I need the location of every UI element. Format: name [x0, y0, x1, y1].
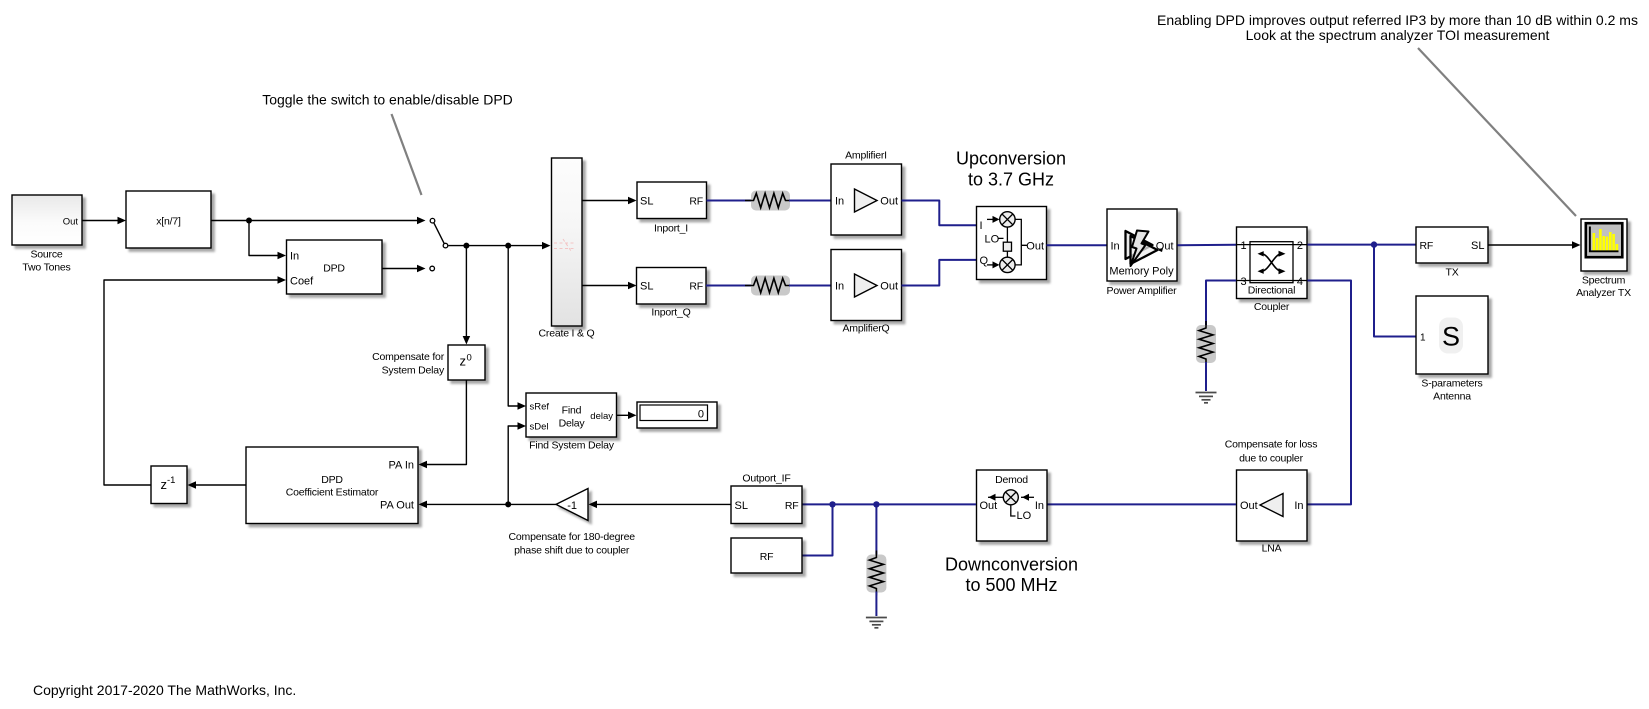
- wire coupler port4 to LNA In: [1308, 281, 1352, 505]
- svg-text:AmplifierQ: AmplifierQ: [842, 323, 889, 335]
- label Delay: [559, 418, 586, 430]
- arrowhead into sRef: [518, 402, 527, 410]
- svg-text:TX: TX: [1445, 267, 1458, 279]
- block Outport_IF: [731, 486, 802, 524]
- block DPD Coefficient Estimator: [246, 447, 418, 524]
- block Demod: [977, 470, 1048, 541]
- port label RF (Inport_I): [689, 196, 703, 208]
- svg-text:Downconversion: Downconversion: [945, 555, 1078, 575]
- svg-text:SL: SL: [640, 281, 653, 293]
- switch pivot terminal: [443, 243, 448, 248]
- port label PA Out: [380, 500, 414, 512]
- annotation: Toggle the switch to enable/disable DPD: [262, 92, 513, 108]
- port label PA In: [389, 459, 414, 471]
- port label In (LNA): [1294, 500, 1303, 512]
- svg-text:Analyzer TX: Analyzer TX: [1576, 287, 1631, 299]
- label Create I &amp; Q: [539, 328, 595, 340]
- wire delay out to Display: [617, 414, 633, 416]
- svg-text:Two Tones: Two Tones: [22, 262, 70, 274]
- svg-text:Demod: Demod: [995, 474, 1028, 486]
- svg-text:In: In: [835, 281, 844, 293]
- label Find: [562, 405, 582, 417]
- port label In (DPD): [290, 250, 299, 262]
- svg-text:4: 4: [1297, 276, 1303, 288]
- arrowhead into PA In: [419, 461, 428, 469]
- label Power Amplifier: [1107, 285, 1178, 297]
- arrowhead into DPD Coef: [278, 276, 287, 284]
- block z0 compensate delay: [448, 345, 485, 380]
- wire Demod Out to Outport_IF RF: [803, 503, 977, 505]
- arrowhead into Spectrum Analyzer: [1572, 241, 1581, 249]
- wire Outport_IF SL to gain -1: [593, 503, 732, 505]
- port pin 1 (S-parameters): [1420, 332, 1426, 343]
- svg-text:Out: Out: [63, 216, 79, 227]
- arrowhead upper mixer: [993, 216, 1000, 223]
- wire DPD out to switch lower terminal: [382, 268, 421, 270]
- label Demod (inside): [995, 474, 1028, 486]
- port label In (PA): [1111, 240, 1120, 252]
- svg-text:Out: Out: [880, 281, 898, 293]
- svg-text:Find System Delay: Find System Delay: [529, 440, 615, 452]
- svg-text:Create I & Q: Create I & Q: [539, 328, 595, 340]
- svg-text:-1: -1: [167, 475, 175, 486]
- svg-text:3: 3: [1241, 276, 1247, 288]
- coupler pin 2: [1297, 240, 1303, 252]
- wire Inport_Q RF to resistor RQ: [706, 285, 752, 287]
- block z-1 delay: [151, 466, 187, 504]
- annotation: Upconversion heading: [956, 149, 1066, 169]
- label Outport_IF (above block): [742, 473, 790, 485]
- wire resistor R3 to ground: [1205, 362, 1207, 391]
- coupler pin 1: [1241, 240, 1247, 252]
- svg-text:I: I: [980, 220, 983, 232]
- wire LNA Out to Demod In: [1047, 503, 1236, 505]
- svg-text:SL: SL: [1471, 240, 1484, 252]
- port label Coef (DPD): [290, 276, 314, 288]
- port label In (Demod): [1035, 500, 1044, 512]
- svg-text:AmplifierI: AmplifierI: [845, 150, 887, 162]
- coupler inner rectangle icon: [1237, 242, 1307, 283]
- svg-text:Antenna: Antenna: [1433, 391, 1471, 403]
- port label Out (PA): [1156, 240, 1174, 252]
- svg-text:Delay: Delay: [559, 418, 586, 430]
- label Inport_Q: [651, 307, 690, 319]
- wire x[n/7] to switch: [211, 220, 421, 222]
- mixer lower multiplier circle: [1000, 257, 1015, 272]
- label S-parameters: [1421, 378, 1482, 390]
- svg-text:0: 0: [698, 408, 704, 420]
- label DPD (estimator): [321, 474, 343, 486]
- svg-text:Memory Poly: Memory Poly: [1109, 266, 1174, 278]
- port label RF (Outport_IF): [785, 500, 799, 512]
- annotation line 2: Look at the spectrum analyzer TOI measurement: [1246, 27, 1550, 43]
- resistor R3 (coupler termination): [1196, 321, 1216, 366]
- annotation line 1: Enabling DPD improves output referred IP3: [1157, 12, 1638, 28]
- port label Out (LNA): [1240, 500, 1258, 512]
- mixer internal arrow into lower circle: [987, 264, 994, 266]
- label Source: [30, 249, 62, 261]
- svg-text:to 3.7 GHz: to 3.7 GHz: [968, 170, 1054, 190]
- svg-text:System Delay: System Delay: [382, 365, 445, 377]
- svg-text:In: In: [1111, 240, 1120, 252]
- copyright notice: [33, 682, 296, 698]
- svg-text:x[n/7]: x[n/7]: [156, 216, 181, 228]
- arrowhead into x[n/7]: [118, 217, 127, 225]
- block Find Delay: [526, 393, 617, 437]
- block DPD: [287, 240, 383, 294]
- svg-text:PA In: PA In: [389, 459, 414, 471]
- callout line to spectrum analyzer: [1418, 48, 1576, 216]
- port label Out (Source): [63, 216, 79, 227]
- wire AmplifierI Out to mixer I: [902, 201, 977, 226]
- svg-text:Out: Out: [880, 196, 898, 208]
- junction on PA Out line: [505, 501, 511, 507]
- arrowhead into Inport_Q SL: [628, 282, 637, 290]
- svg-text:sRef: sRef: [530, 401, 550, 412]
- wire RF block elbow up to junction: [803, 504, 833, 555]
- red sample-time dashes inside Create I and Q: [554, 239, 576, 251]
- port label I (mixer): [980, 220, 983, 232]
- demod internal arrow right of circle: [1021, 496, 1034, 498]
- svg-text:SL: SL: [735, 500, 748, 512]
- junction B below switch: [505, 243, 511, 249]
- wire gain -1 to PA Out: [423, 503, 557, 505]
- port label Out (AmplifierI): [880, 196, 898, 208]
- junction A below switch: [463, 243, 469, 249]
- label Two Tones: [22, 262, 70, 274]
- wire TX SL to Spectrum Analyzer: [1489, 244, 1577, 246]
- block IQ modulator (upconversion mixer): [977, 207, 1047, 280]
- svg-text:RF: RF: [785, 500, 799, 512]
- svg-text:PA Out: PA Out: [380, 500, 414, 512]
- callout line to switch: [392, 114, 422, 195]
- svg-text:sDel: sDel: [530, 421, 549, 432]
- svg-text:Source: Source: [30, 249, 62, 261]
- Display inner field: [640, 405, 708, 421]
- wire branch down to S-parameters: [1374, 245, 1416, 337]
- block AmplifierI: [831, 164, 902, 235]
- label Antenna: [1433, 391, 1471, 403]
- wire coupler port2 to TX RF: [1308, 244, 1417, 246]
- svg-text:In: In: [835, 196, 844, 208]
- S-parameters S glyph with halo: [1439, 318, 1463, 354]
- label AmplifierI: [845, 150, 887, 162]
- svg-text:In: In: [1294, 500, 1303, 512]
- demod mixer circle: [1003, 490, 1018, 505]
- svg-text:Compensate for 180-degree: Compensate for 180-degree: [509, 531, 636, 543]
- arrowhead into z-1: [188, 481, 197, 489]
- label Memory Poly (inside PA): [1109, 266, 1174, 278]
- svg-text:LO: LO: [985, 233, 1000, 245]
- z0 block text: [460, 353, 472, 369]
- coupler pin 4: [1297, 276, 1303, 288]
- arrowhead into PA Out: [419, 501, 428, 509]
- ground symbol below R3: [1196, 393, 1217, 403]
- resistor RI (I path): [745, 191, 794, 211]
- svg-text:Inport_I: Inport_I: [654, 223, 688, 235]
- svg-text:Inport_Q: Inport_Q: [651, 307, 690, 319]
- svg-text:1: 1: [1420, 332, 1426, 343]
- wire PA Out to coupler port 1: [1178, 244, 1237, 247]
- block AmplifierQ: [831, 250, 902, 321]
- port label In (AmplifierQ): [835, 281, 844, 293]
- wire mixer Out to Power Amplifier: [1047, 244, 1108, 246]
- svg-text:DPD: DPD: [323, 263, 345, 275]
- svg-text:-1: -1: [567, 500, 577, 512]
- label DPD: [323, 263, 345, 275]
- svg-text:due to coupler: due to coupler: [1239, 453, 1303, 465]
- svg-text:Coef: Coef: [290, 276, 314, 288]
- port label Out (mixer): [1026, 240, 1044, 252]
- svg-text:z: z: [460, 354, 467, 369]
- svg-text:RF: RF: [1420, 240, 1434, 252]
- label Spectrum: [1582, 275, 1626, 287]
- annotation: to 500 MHz: [965, 575, 1057, 595]
- ground symbol below R4: [866, 618, 887, 628]
- svg-text:2: 2: [1297, 240, 1303, 252]
- wire Create IQ upper out to Inport_I: [582, 200, 633, 202]
- arrowhead into Inport_I SL: [628, 197, 637, 205]
- wire z0 down and left to PA In: [422, 380, 466, 465]
- LNA triangle symbol pointing left: [1260, 494, 1283, 517]
- svg-text:Look at the spectrum analyzer: Look at the spectrum analyzer TOI measur…: [1246, 27, 1550, 43]
- arrowhead into DPD In: [278, 252, 287, 260]
- block S-parameters Antenna: [1416, 296, 1488, 374]
- arrowhead into switch upper terminal: [417, 217, 426, 225]
- label Coefficient Estimator: [286, 487, 379, 499]
- AmplifierI triangle symbol: [855, 189, 878, 212]
- port label sDel: [530, 421, 549, 432]
- svg-text:Coefficient Estimator: Coefficient Estimator: [286, 487, 379, 499]
- wire resistor RQ to AmplifierQ: [789, 285, 831, 287]
- svg-text:LO: LO: [1017, 510, 1032, 522]
- arrowhead into Display: [628, 412, 637, 420]
- svg-text:In: In: [1035, 500, 1044, 512]
- svg-text:Enabling DPD improves output r: Enabling DPD improves output referred IP…: [1157, 12, 1638, 28]
- port label sRef: [530, 401, 550, 412]
- block Display: [637, 402, 717, 428]
- svg-text:Coupler: Coupler: [1254, 301, 1290, 313]
- annotation: Downconversion heading: [945, 555, 1078, 575]
- demod internal arrow left of circle: [988, 496, 1003, 498]
- port label SL (Inport_Q): [640, 281, 653, 293]
- label LO (Demod): [1017, 510, 1032, 522]
- block x[n/7] delay: [126, 191, 211, 248]
- port label RF (Inport_Q): [689, 281, 703, 293]
- svg-text:delay: delay: [590, 411, 613, 422]
- wire junction A down to z0: [465, 246, 467, 341]
- port label In (AmplifierI): [835, 196, 844, 208]
- label Analyzer TX: [1576, 287, 1631, 299]
- Display value 0: [698, 408, 704, 420]
- block Power Amplifier (Memory Poly): [1107, 209, 1177, 281]
- switch lower terminal: [430, 266, 435, 271]
- svg-text:to 500 MHz: to 500 MHz: [965, 575, 1057, 595]
- svg-text:Compensate for: Compensate for: [372, 351, 445, 363]
- svg-text:S-parameters: S-parameters: [1421, 378, 1482, 390]
- wire junction up to sDel: [508, 426, 522, 504]
- wire junction B down to sRef: [508, 246, 522, 406]
- annotation due to coupler: [1239, 453, 1303, 465]
- wire AmplifierQ Out to mixer Q: [902, 260, 977, 286]
- svg-text:Out: Out: [1240, 500, 1258, 512]
- junction on TX RF line: [1371, 241, 1377, 247]
- mixer LO tick and vertical chain with square: [999, 227, 1012, 257]
- svg-text:RF: RF: [689, 196, 703, 208]
- PA amplifier-with-lightning icon: [1126, 231, 1164, 267]
- svg-text:Spectrum: Spectrum: [1582, 275, 1626, 287]
- block Directional Coupler: [1237, 227, 1308, 299]
- label Inport_I: [654, 223, 688, 235]
- svg-text:LNA: LNA: [1262, 543, 1282, 555]
- svg-text:Out: Out: [980, 500, 998, 512]
- label TX: [1445, 267, 1458, 279]
- label x[n/7]: [156, 216, 181, 228]
- junction on demod line (RF elbow): [829, 501, 835, 507]
- arrowhead into z0 top: [463, 336, 471, 345]
- port label RF (TX): [1420, 240, 1434, 252]
- arrowhead into gain -1: [589, 501, 598, 509]
- wire Source Out to x[n/7]: [82, 220, 122, 222]
- arrowhead into sDel: [518, 422, 527, 430]
- AmplifierQ triangle symbol: [855, 274, 878, 297]
- port label Q (mixer): [980, 255, 989, 267]
- annotation Compensate for 180-degree: [509, 531, 636, 543]
- svg-text:Upconversion: Upconversion: [956, 149, 1066, 169]
- spectrum analyzer icon: [1586, 223, 1623, 257]
- demod arrowhead left: [989, 494, 996, 501]
- demod arrowhead right: [1022, 494, 1029, 501]
- label LNA: [1262, 543, 1282, 555]
- svg-text:Toggle the switch to enable/di: Toggle the switch to enable/disable DPD: [262, 92, 513, 108]
- block Create I and Q: [552, 158, 583, 326]
- demod LO elbow: [1011, 505, 1016, 516]
- annotation Compensate for (z0): [372, 351, 445, 363]
- manual switch lever: [434, 223, 445, 244]
- port label delay: [590, 411, 613, 422]
- port label SL (TX): [1471, 240, 1484, 252]
- coupler crossed curved arrows: [1262, 254, 1282, 271]
- label RF (block): [760, 551, 774, 563]
- svg-text:DPD: DPD: [321, 474, 343, 486]
- svg-text:In: In: [290, 250, 299, 262]
- svg-text:1: 1: [1241, 240, 1247, 252]
- wire resistor R4 to ground: [875, 592, 877, 617]
- svg-text:Copyright 2017-2020 The MathWo: Copyright 2017-2020 The MathWorks, Inc.: [33, 682, 296, 698]
- label Directional (inside coupler): [1248, 285, 1295, 297]
- block TX: [1416, 227, 1488, 263]
- gain -1 triangle: [556, 489, 588, 521]
- wire branch down to DPD In: [249, 221, 282, 256]
- block Spectrum Analyzer TX: [1581, 219, 1627, 271]
- junction on x[n/7] output: [246, 218, 252, 224]
- port label Out (Demod): [980, 500, 998, 512]
- annotation System Delay (z0): [382, 365, 445, 377]
- label LO (mixer): [985, 233, 1000, 245]
- junction on demod line (resistor): [873, 501, 879, 507]
- mixer upper multiplier circle: [1000, 212, 1015, 227]
- svg-text:RF: RF: [689, 281, 703, 293]
- svg-text:Power Amplifier: Power Amplifier: [1107, 285, 1178, 297]
- coupler pin 3: [1241, 276, 1247, 288]
- resistor R4 (IF termination): [866, 551, 886, 596]
- coupler arrowheads on crossed arrows: [1258, 251, 1286, 274]
- svg-text:Compensate for loss: Compensate for loss: [1225, 439, 1318, 451]
- label Find System Delay: [529, 440, 615, 452]
- label Coupler: [1254, 301, 1290, 313]
- arrowhead into Create I and Q: [542, 242, 551, 250]
- mixer right combiner path to Out: [1015, 219, 1027, 265]
- z-1 block text: [161, 475, 176, 492]
- port label Out (AmplifierQ): [880, 281, 898, 293]
- svg-text:0: 0: [467, 353, 472, 364]
- switch upper terminal: [430, 218, 435, 223]
- block Source Two Tones: [12, 195, 82, 245]
- svg-text:S: S: [1442, 322, 1460, 352]
- block LNA: [1237, 470, 1308, 541]
- gain value -1: [567, 500, 577, 512]
- mixer internal arrow into upper circle: [987, 218, 994, 220]
- label AmplifierQ: [842, 323, 889, 335]
- annotation phase shift due to coupler: [514, 545, 630, 557]
- svg-text:Outport_IF: Outport_IF: [742, 473, 790, 485]
- block RF: [731, 538, 802, 573]
- wire junction down to resistor R4: [875, 504, 877, 555]
- svg-text:Find: Find: [562, 405, 582, 417]
- wire resistor RI to AmplifierI: [789, 200, 831, 202]
- port label SL (Outport_IF): [735, 500, 748, 512]
- block Inport_Q: [637, 268, 707, 305]
- svg-text:Directional: Directional: [1248, 285, 1295, 297]
- block Inport_I: [637, 182, 707, 219]
- resistor RQ (Q path): [745, 276, 794, 296]
- wire z-1 to DPD Coef: [104, 280, 282, 485]
- annotation Compensate for loss: [1225, 439, 1318, 451]
- annotation: to 3.7 GHz: [968, 170, 1054, 190]
- wire Create IQ lower out to Inport_Q: [582, 285, 633, 287]
- wire coupler port3 to resistor R3: [1206, 281, 1236, 327]
- svg-text:SL: SL: [640, 196, 653, 208]
- port label SL (Inport_I): [640, 196, 653, 208]
- arrowhead into switch lower terminal: [417, 265, 426, 273]
- wire Inport_I RF to resistor RI: [707, 200, 753, 202]
- svg-text:phase shift due to coupler: phase shift due to coupler: [514, 545, 630, 557]
- svg-text:Out: Out: [1026, 240, 1044, 252]
- svg-text:RF: RF: [760, 551, 774, 563]
- wire switch output to Create I and Q: [448, 245, 546, 247]
- arrowhead lower mixer: [993, 261, 1000, 268]
- wire estimator out to z-1: [192, 484, 247, 486]
